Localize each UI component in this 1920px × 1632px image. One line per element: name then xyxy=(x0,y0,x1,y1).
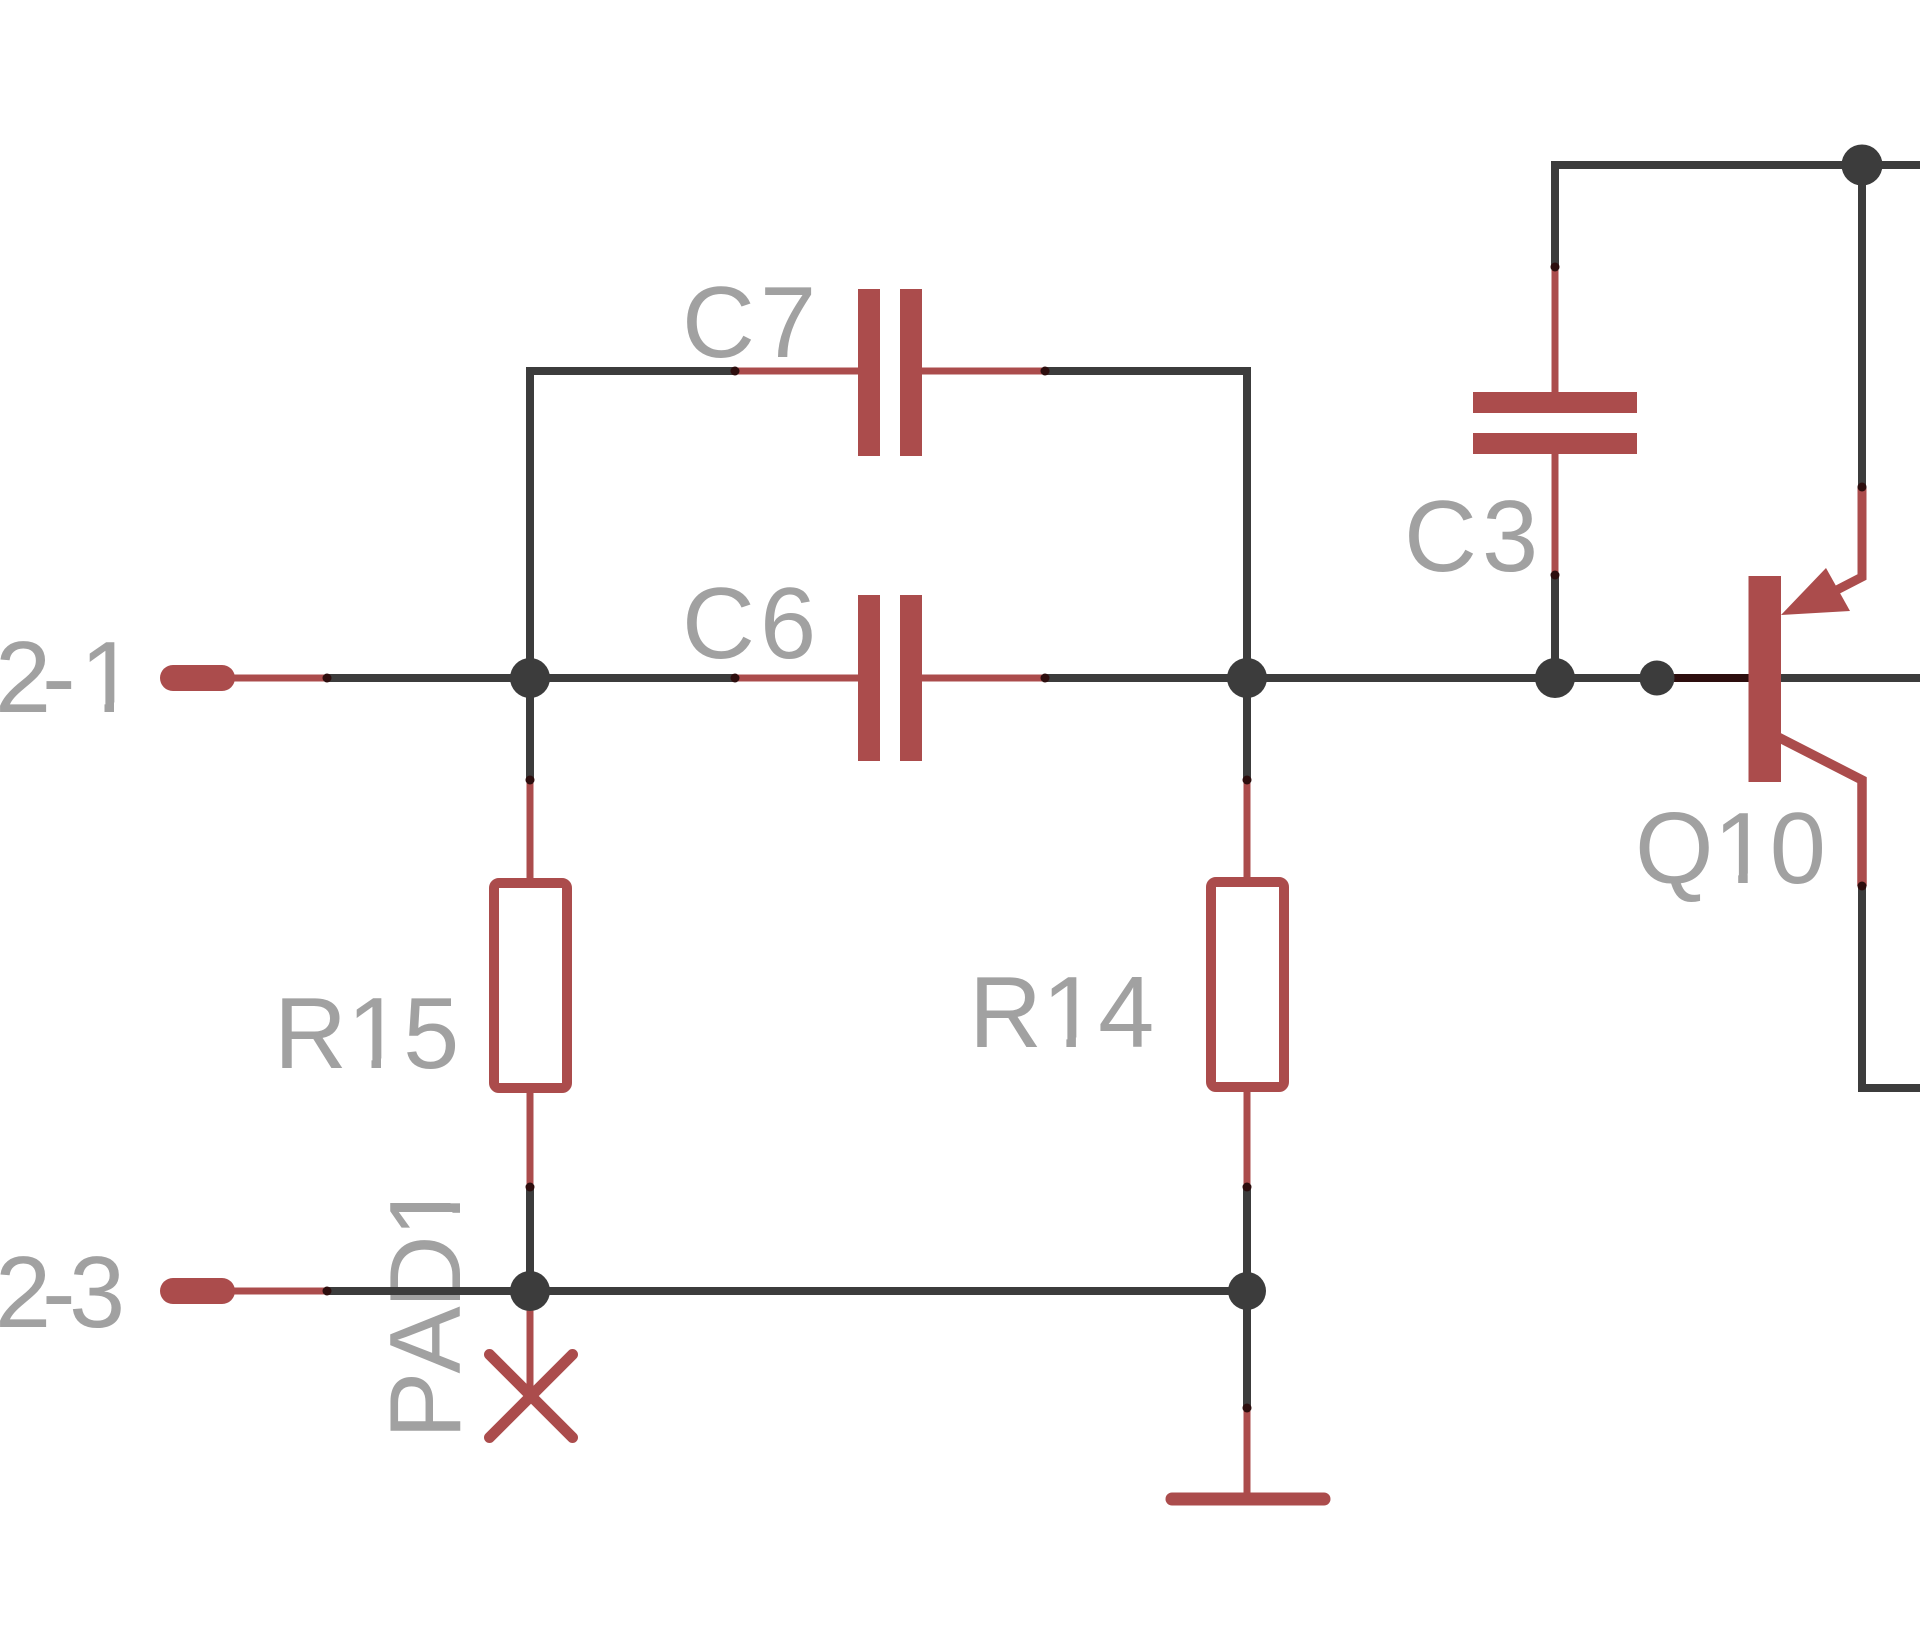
wire end dot C6 right xyxy=(1041,674,1050,683)
pin 2-3 xyxy=(160,1278,327,1304)
svg-text:PAD1: PAD1 xyxy=(370,1183,482,1439)
wire C3 bottom vertical xyxy=(1551,575,1559,678)
wire end dot C6 left xyxy=(731,674,740,683)
transistor Q10 xyxy=(1663,487,1862,886)
ground xyxy=(1172,1408,1324,1499)
wire R14 to ground xyxy=(1243,1291,1251,1408)
wire end dot C3 bottom xyxy=(1551,571,1560,580)
wire end dot R15 bottom xyxy=(526,1183,535,1192)
junction node bottom-mid xyxy=(1228,1272,1266,1310)
svg-text:C3: C3 xyxy=(1404,481,1543,593)
capacitor C3 xyxy=(1473,267,1637,575)
wire C7 loop left vertical xyxy=(530,371,735,678)
wire end dot ground xyxy=(1243,1404,1252,1413)
wire Q10 emitter vertical dark xyxy=(1858,166,1866,487)
label Q10 xyxy=(1635,793,1826,905)
wire end dot R14 top xyxy=(1243,776,1252,785)
junction node Q10 base xyxy=(1640,661,1675,696)
wire Q10 collector vertical dark xyxy=(1862,886,1920,1088)
wire C3 top vertical xyxy=(1551,161,1559,267)
wire C7 loop right vertical xyxy=(1045,371,1247,678)
wire end dot Q10 collector xyxy=(1858,882,1867,891)
label 2-1 xyxy=(0,622,136,734)
svg-text:C7: C7 xyxy=(682,267,821,379)
wire end dot C7 left xyxy=(731,367,740,376)
wire bottom horizontal xyxy=(327,1287,1247,1295)
wire main horizontal left xyxy=(327,674,735,682)
wire top rail xyxy=(1555,161,1920,169)
label R15 xyxy=(274,978,459,1090)
svg-text:R14: R14 xyxy=(969,957,1154,1069)
resistor R14 xyxy=(1211,780,1284,1187)
wire end dot R14 bottom xyxy=(1243,1183,1252,1192)
pin 2-1 xyxy=(160,665,327,691)
wire end dot R15 top xyxy=(526,776,535,785)
svg-text:2-1: 2-1 xyxy=(0,622,136,734)
junction node bottom-left xyxy=(510,1271,550,1311)
label R14 xyxy=(969,957,1154,1069)
wire end dot C3 top xyxy=(1551,263,1560,272)
X mark PAD1 unconnected xyxy=(490,1291,573,1438)
wire end dot C7 right xyxy=(1041,367,1050,376)
wire end dot Q10 emitter xyxy=(1858,483,1867,492)
wire R15 top xyxy=(526,678,534,780)
wire main horizontal right xyxy=(1045,674,1920,682)
svg-text:R15: R15 xyxy=(274,978,459,1090)
resistor R15 xyxy=(494,780,567,1187)
capacitor C6 xyxy=(735,595,1045,761)
label PAD1 xyxy=(370,1183,482,1439)
junction node main-C3 xyxy=(1535,658,1575,698)
svg-text:2-3: 2-3 xyxy=(0,1237,125,1349)
wire R14 top xyxy=(1243,678,1251,780)
wire end dot pin2-3 xyxy=(323,1287,332,1296)
junction node main-left xyxy=(510,658,550,698)
junction node top rail xyxy=(1842,145,1883,186)
wire end dot pin2-1 xyxy=(323,674,332,683)
wire R15 bottom xyxy=(526,1187,534,1291)
svg-text:Q10: Q10 xyxy=(1635,793,1826,905)
wire R14 bottom xyxy=(1243,1187,1251,1291)
capacitor C7 xyxy=(735,289,1045,456)
svg-text:C6: C6 xyxy=(682,568,821,680)
junction node main-mid xyxy=(1227,658,1267,698)
